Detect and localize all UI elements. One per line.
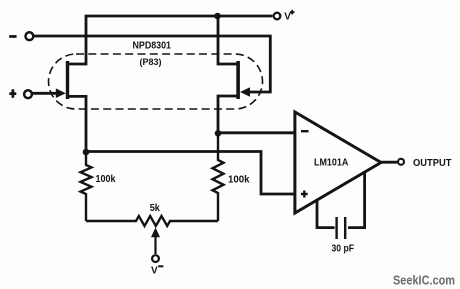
svg-text:SeekIC.com: SeekIC.com [393,272,455,287]
potentiometer R3 5k on bottom rail [86,216,218,226]
op-amp U1 minus pin mark [301,130,309,132]
svg-text:100k: 100k [228,175,250,186]
wire minus input to right gate [34,36,271,92]
op-amp U1 triangle [295,112,381,213]
capacitor C1 right plate [344,217,346,239]
node junction dot left source [83,149,90,156]
wire top rail V+ with left drain [67,16,273,64]
terminal V- [152,255,159,262]
svg-text:OUTPUT: OUTPUT [413,158,452,169]
svg-text:30 pF: 30 pF [332,243,355,254]
capacitor C1 right lead [348,172,365,227]
wire Q1 source lead [67,96,86,150]
capacitor C1 30pF left lead [317,200,335,228]
transistor Q2 gate arrow [240,87,250,97]
wire plus input to left gate [32,92,58,95]
resistor R1 100k left [81,150,92,221]
wire Q2 source lead [218,96,239,134]
wire Q2 drain lead [218,18,239,64]
svg-text:5k: 5k [150,203,160,214]
wire left source node to op-amp plus input [86,152,294,195]
wiper arrow of R3 [151,227,160,237]
node junction dot right source [215,130,222,137]
label minus input [9,35,16,38]
wire op-amp output [380,161,397,164]
terminal OUTPUT [398,159,404,165]
label V+ [284,10,294,23]
transistor Q1 gate arrow [56,88,66,98]
terminal plus input [24,90,32,98]
svg-text:100k: 100k [96,174,116,185]
terminal minus input [26,32,34,40]
svg-text:NPD8301: NPD8301 [133,41,172,52]
capacitor C1 left plate [335,217,337,239]
svg-text:V: V [284,12,291,23]
wire wiper to V- terminal [154,236,156,254]
svg-text:LM101A: LM101A [314,157,349,168]
svg-text:(P83): (P83) [140,57,162,68]
transistor Q1 left JFET bar [66,61,69,99]
label V- [151,265,163,276]
transistor Q2 right JFET bar [236,61,240,99]
wire right source node to op-amp minus input [218,131,294,134]
resistor R2 100k right [213,134,224,221]
svg-text:V: V [151,266,158,277]
package NPD8301 dashed outline [49,54,263,109]
label plus input [9,89,16,98]
node junction dot top rail [214,13,221,20]
terminal V+ [274,13,281,20]
op-amp U1 plus pin mark [301,191,308,198]
